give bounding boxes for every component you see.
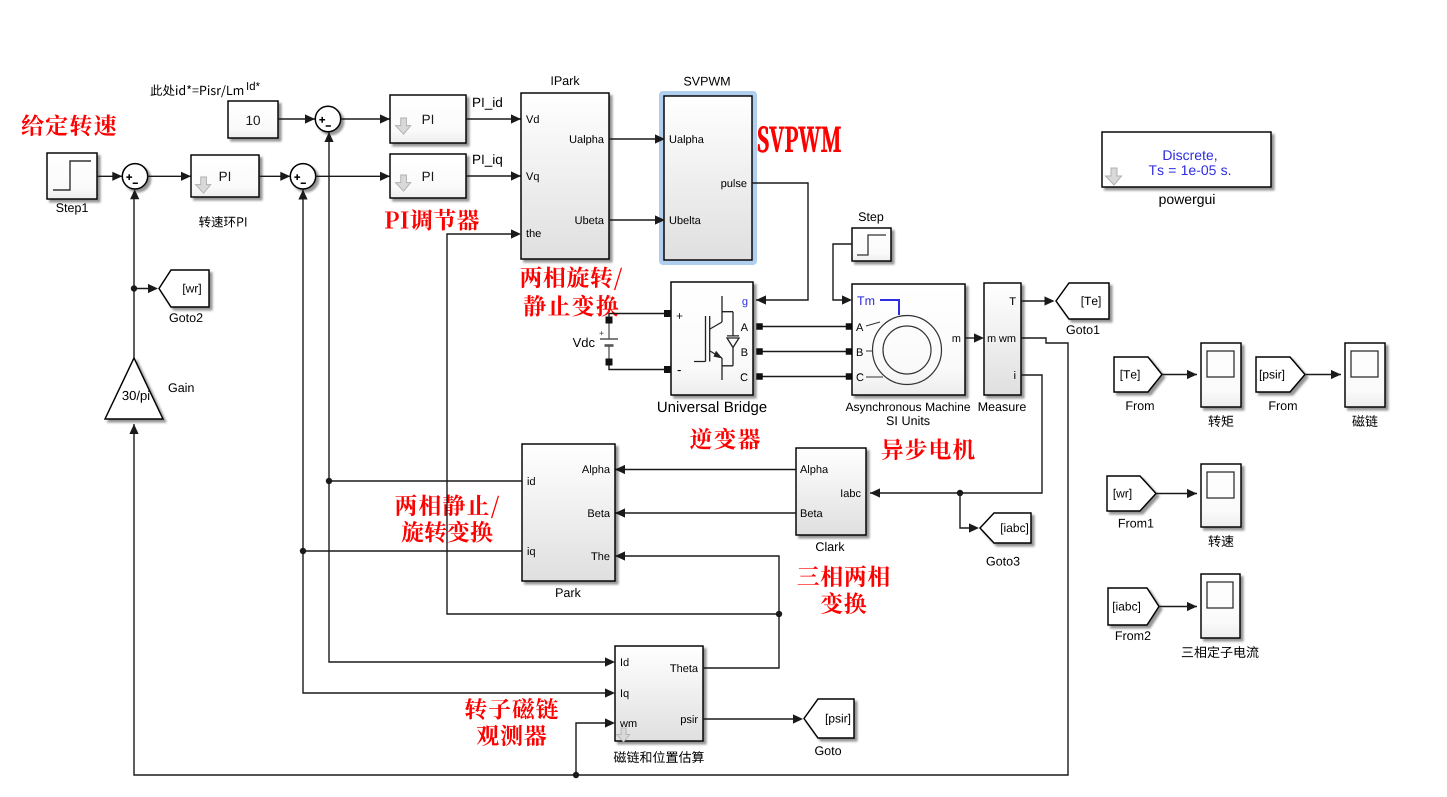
label 转速环PI — [199, 216, 246, 228]
wire Gain output to Sum1 — [133, 192, 135, 358]
red label 转子磁链 — [465, 698, 558, 720]
wire IPark Ualpha to SVPWM — [609, 138, 664, 140]
port square bridge A — [756, 323, 763, 330]
wire Measure T to Goto1 — [1021, 300, 1051, 302]
subsystem block SVPWM — [664, 96, 752, 260]
junction dot iq — [300, 548, 306, 554]
transform block Clark — [796, 448, 866, 535]
red label PI调节器 — [385, 209, 479, 231]
label 转矩 — [1209, 415, 1234, 427]
PI controller block 转速环PI — [191, 155, 259, 197]
wire machine m to Measure — [965, 337, 980, 339]
wire From1 to scope — [1156, 493, 1197, 495]
junction dot wm branch — [573, 772, 579, 778]
from tag From2 [iabc] — [1108, 588, 1159, 625]
red label 变换 — [821, 592, 867, 614]
port square Vdc top — [606, 317, 613, 324]
red label 观测器 — [477, 725, 546, 746]
scope block 磁链 — [1345, 343, 1385, 407]
red label 异步电机 — [882, 438, 975, 460]
from tag From [Te] — [1114, 357, 1162, 392]
powergui block — [1102, 132, 1271, 187]
wire phase B bridge to machine — [757, 351, 852, 353]
machine block Asynchronous Machine SI Units — [852, 284, 965, 395]
PI controller block PI_id — [390, 95, 466, 143]
label Id* on wire — [247, 82, 260, 90]
machine rotor circles — [873, 316, 942, 385]
wire PI_iq to IPark Vq — [466, 175, 521, 177]
from tag From1 [wr] — [1107, 476, 1156, 511]
port square Vdc bottom — [606, 359, 613, 366]
gain block 30/pi — [105, 358, 163, 419]
red label 旋转变换 — [402, 521, 493, 543]
wire to Goto2 — [134, 288, 155, 290]
selection halo SVPWM — [662, 94, 755, 263]
wire Sum2 to PI_iq — [316, 175, 390, 177]
scope block 三相定子电流 — [1201, 574, 1240, 638]
goto tag Goto3 [iabc] — [980, 513, 1031, 543]
from tag From [psir] — [1256, 357, 1305, 392]
sum junction Sum3 — [315, 106, 340, 131]
port square bridge + — [664, 310, 671, 317]
goto tag Goto1 [Te] — [1056, 283, 1109, 319]
DC source Vdc — [573, 338, 595, 348]
wire Constant to Sum3 — [278, 118, 315, 120]
wire phase C bridge to machine — [757, 376, 852, 378]
wire Sum3 to PI_id — [341, 118, 391, 120]
constant block 10 — [228, 101, 278, 138]
wire PI_id to IPark Vd — [466, 118, 521, 120]
label 磁链 — [1352, 415, 1377, 427]
wire phase A bridge to machine — [757, 326, 852, 328]
measure block Measure — [984, 283, 1021, 395]
scope block 转速 — [1201, 464, 1241, 527]
wire SVPWM pulse to bridge g — [752, 183, 808, 300]
wire Measure i to Clark Iabc — [870, 375, 1042, 493]
label 磁链和位置估算 — [614, 751, 704, 763]
scope block 转矩 — [1201, 343, 1241, 407]
port square machine B — [846, 348, 853, 355]
signal label PI_id — [473, 97, 502, 110]
label 三相定子电流 — [1182, 646, 1259, 658]
wire branch to flux observer wm — [576, 723, 611, 775]
red label 逆变器 — [690, 428, 760, 450]
port square machine A — [846, 323, 853, 330]
wire Vdc+ to bridge + — [609, 314, 664, 318]
sum junction Sum1 — [122, 164, 147, 189]
IGBT and diode icon — [694, 296, 739, 380]
port square machine C — [846, 373, 853, 380]
red label 两相旋转/ — [521, 266, 623, 290]
wire IPark Ubeta to SVPWM — [609, 219, 664, 221]
sum junction Sum2 — [290, 164, 315, 189]
wire Clark Beta to Park — [615, 512, 796, 514]
junction dot iabc branch — [957, 490, 963, 496]
Tm blue stub — [880, 300, 899, 315]
red label SVPWM — [758, 127, 841, 153]
wire Clark Alpha to Park — [615, 469, 796, 471]
wire branch to Goto3 — [960, 493, 976, 528]
red label 两相静止/ — [396, 494, 500, 518]
wire Park iq to Sum2 and flux Iq — [303, 550, 522, 552]
wire Vdc- to bridge - — [609, 365, 664, 370]
port square bridge B — [756, 348, 763, 355]
red label 静止变换 — [524, 295, 619, 317]
red label 给定转速 — [22, 114, 117, 136]
source block Step1 — [47, 153, 97, 199]
wire Measure wm to bottom bus and Gain — [134, 338, 1068, 775]
source block Step — [852, 228, 891, 261]
observer block 磁链和位置估算 — [615, 646, 703, 741]
junction dot Gain output to Goto2 — [131, 285, 137, 291]
junction dot Theta — [776, 611, 782, 617]
red label 三相两相 — [798, 565, 890, 587]
wire From2 to scope — [1159, 606, 1197, 608]
PI controller block PI_iq — [390, 154, 466, 198]
signal label PI_iq — [473, 154, 502, 167]
goto tag Goto2 [wr] — [159, 270, 209, 307]
wire Park id to Sum3 and flux Id — [329, 480, 522, 482]
transform block Park — [522, 444, 615, 581]
note 此处id*=Pisr/Lm — [151, 85, 244, 98]
wire From Te to scope — [1162, 374, 1197, 376]
label 转速 — [1209, 535, 1234, 547]
wire Theta to Park The and IPark the — [615, 556, 779, 668]
wire Step1 to Sum1 — [97, 175, 122, 177]
port square bridge - — [664, 366, 671, 373]
wire From psir to scope — [1305, 374, 1341, 376]
wire psir to Goto — [703, 718, 799, 720]
goto tag Goto [psir] — [804, 699, 854, 738]
junction dot id — [326, 478, 332, 484]
wire Step to machine Tm — [833, 244, 852, 300]
wire PI speed to Sum2 — [259, 175, 290, 177]
port square bridge C — [756, 373, 763, 380]
subsystem block IPark — [521, 93, 609, 259]
wire Sum1 to PI speed — [148, 175, 191, 177]
power block Universal Bridge — [671, 282, 753, 395]
